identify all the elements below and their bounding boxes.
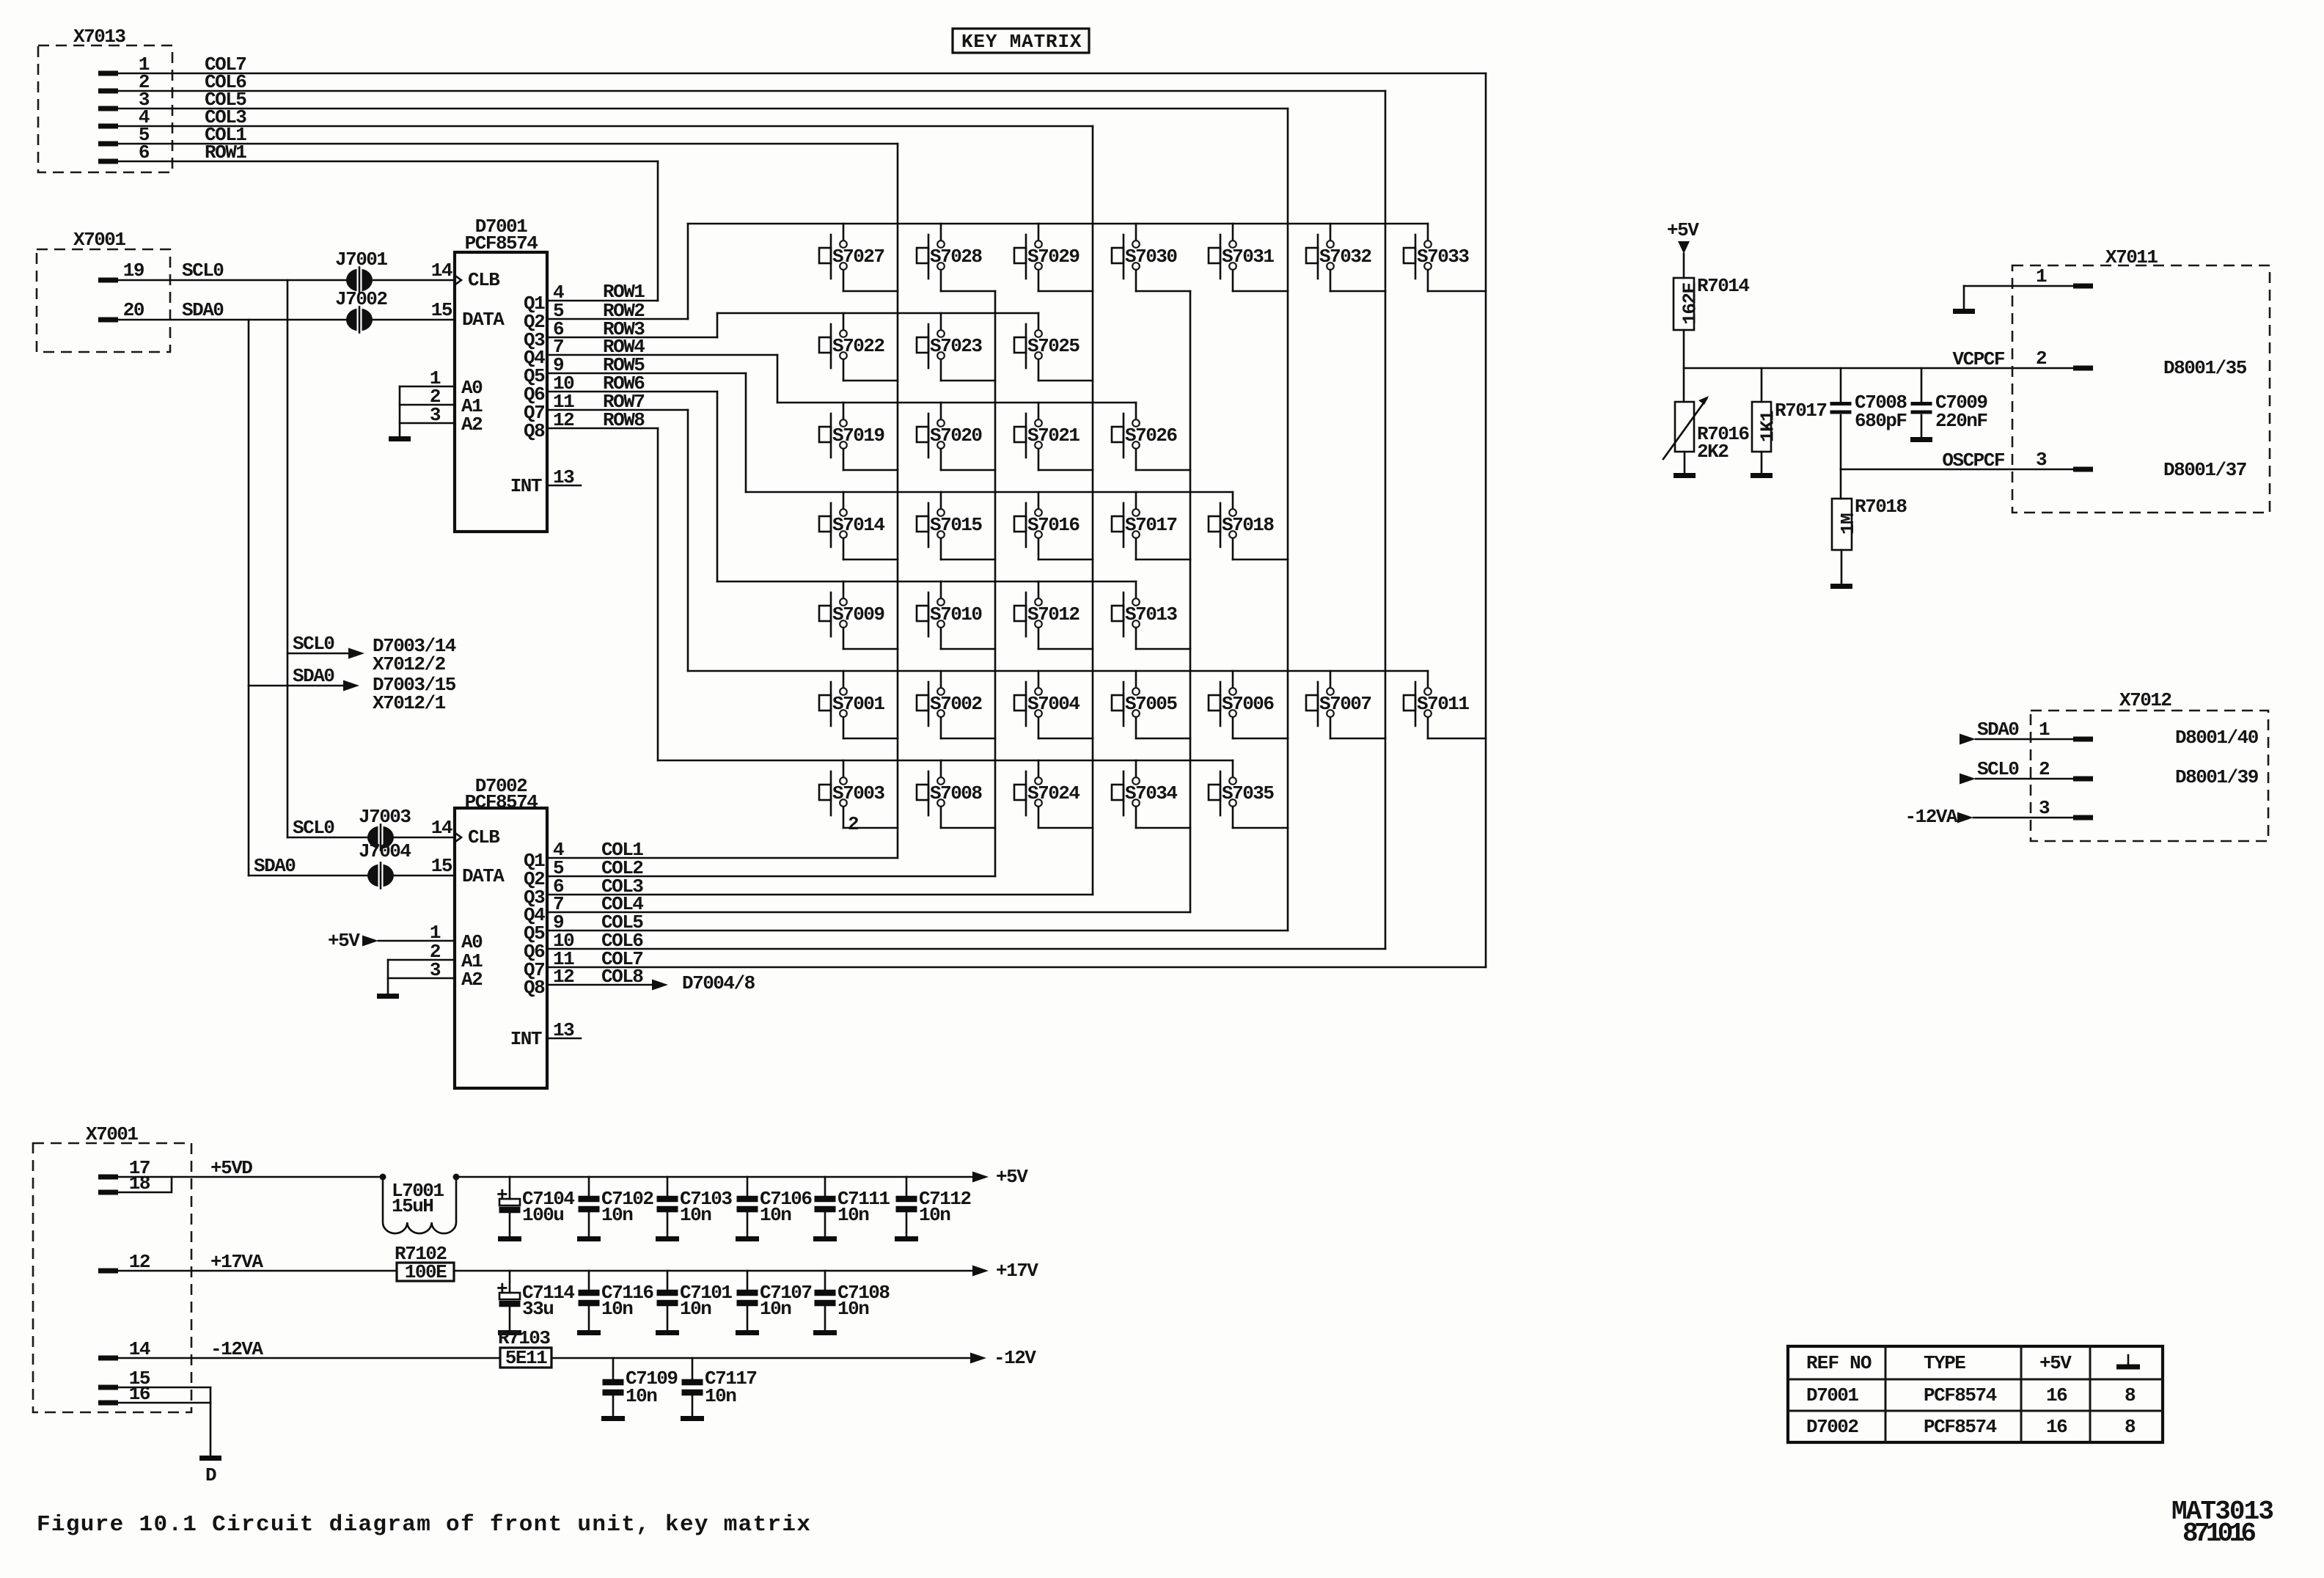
svg-text:S7027: S7027 (832, 246, 884, 268)
wire ROW4 from D7001 Q4 to key row 3 (547, 336, 1136, 403)
svg-text:X7001: X7001 (73, 229, 125, 251)
svg-text:10n: 10n (601, 1298, 633, 1320)
svg-text:680pF: 680pF (1855, 410, 1907, 432)
wire ROW7 from D7001 Q7 to key row 6 (547, 391, 1428, 671)
svg-text:TYPE: TYPE (1924, 1352, 1965, 1374)
svg-text:+5VD: +5VD (210, 1157, 252, 1179)
svg-text:15uH: 15uH (392, 1195, 433, 1217)
switch S7016 (1014, 492, 1093, 559)
connector X7001 (power) (33, 1123, 191, 1412)
wire +5VD rail (118, 1157, 383, 1179)
svg-text:SCL0: SCL0 (182, 260, 224, 282)
node SDA0 to X7012 pin 1 (1960, 719, 2073, 745)
ground R7017 (1751, 473, 1773, 478)
switch S7033 (1404, 224, 1486, 291)
svg-text:D: D (205, 1464, 216, 1486)
svg-text:S7026: S7026 (1125, 425, 1177, 447)
svg-text:10n: 10n (705, 1385, 736, 1407)
capacitor C7114 33u (496, 1271, 574, 1333)
svg-text:8: 8 (2125, 1384, 2136, 1406)
svg-text:PCF8574: PCF8574 (1924, 1416, 1997, 1438)
svg-text:S7014: S7014 (832, 514, 884, 536)
resistor R7017 1K1 (1752, 368, 1827, 473)
svg-text:S7016: S7016 (1027, 514, 1079, 536)
switch S7030 (1112, 224, 1190, 291)
svg-text:X7012/1: X7012/1 (373, 692, 446, 714)
svg-text:S7013: S7013 (1125, 603, 1177, 625)
node SDA0 to D7003/15 X7012/1 (249, 665, 456, 714)
svg-text:SDA0: SDA0 (182, 299, 224, 321)
wire COL2 bus vertical (994, 291, 997, 876)
switch S7027 (819, 224, 898, 291)
wire COL6 bus vertical (1385, 91, 1387, 949)
svg-text:14: 14 (129, 1338, 150, 1360)
svg-text:D7004/8: D7004/8 (682, 972, 755, 994)
svg-text:+: + (496, 1184, 507, 1206)
wire COL5 from X7013 pin 3 (118, 89, 1288, 111)
svg-text:+5V: +5V (1667, 219, 1699, 241)
svg-text:871016: 871016 (2182, 1519, 2257, 1549)
svg-text:S7029: S7029 (1027, 246, 1079, 268)
wire SCL0 to D7002 CLB (287, 817, 455, 839)
switch S7025 (1014, 313, 1093, 381)
wire COL3 bus vertical (1092, 126, 1094, 895)
svg-text:10n: 10n (601, 1204, 633, 1226)
svg-text:S7002: S7002 (930, 693, 982, 715)
connector X7011 (2012, 246, 2270, 513)
svg-text:1: 1 (2036, 265, 2047, 287)
capacitor C7108 10n (813, 1271, 890, 1333)
svg-text:DATA: DATA (462, 865, 505, 887)
switch S7026 (1112, 403, 1190, 470)
svg-text:S7031: S7031 (1222, 246, 1274, 268)
switch S7020 (917, 403, 995, 470)
wire SDA0 from X7001/20 to D7001 DATA (118, 299, 455, 321)
svg-text:S7001: S7001 (832, 693, 884, 715)
svg-text:14: 14 (431, 817, 452, 839)
switch S7019 (819, 403, 898, 470)
switch S7035 (1209, 760, 1288, 828)
svg-text:S7017: S7017 (1125, 514, 1177, 536)
resistor R7018 1M (1832, 496, 1907, 584)
svg-text:-12VA: -12VA (210, 1338, 263, 1360)
resistor R7103 5E11 (498, 1327, 551, 1369)
capacitor C7102 10n (577, 1177, 653, 1239)
svg-text:SCL0: SCL0 (293, 633, 334, 655)
svg-text:R7014: R7014 (1697, 275, 1749, 297)
IC D7001 PCF8574 I/O expander (430, 216, 574, 532)
switch S7028 (917, 224, 995, 291)
svg-text:S7011: S7011 (1417, 693, 1469, 715)
wire +5V rail to arrow (456, 1166, 1028, 1188)
wire +17V rail to arrow (454, 1260, 1038, 1282)
switch S7009 (819, 581, 898, 649)
svg-text:D8001/35: D8001/35 (2163, 357, 2247, 379)
capacitor C7109 10n (601, 1358, 678, 1419)
power +5V supply arrow (1667, 219, 1699, 278)
wire ROW3 from D7001 Q3 to key row 2 (547, 313, 1038, 340)
svg-text:J7003: J7003 (359, 806, 411, 828)
svg-text:S7019: S7019 (832, 425, 884, 447)
svg-text:2K2: 2K2 (1697, 441, 1729, 463)
svg-text:220nF: 220nF (1935, 410, 1987, 432)
wire SDA0 branch vertical (248, 320, 250, 876)
svg-text:D8001/37: D8001/37 (2163, 459, 2246, 481)
svg-text:16: 16 (2046, 1384, 2067, 1406)
svg-text:3: 3 (2036, 449, 2047, 471)
svg-text:-12V: -12V (994, 1347, 1036, 1369)
switch S7012 (1014, 581, 1093, 649)
svg-text:S7015: S7015 (930, 514, 982, 536)
svg-text:D7001: D7001 (1806, 1384, 1858, 1406)
switch S7005 (1112, 671, 1190, 738)
jumper J7001 (335, 249, 387, 293)
svg-text:10n: 10n (837, 1298, 869, 1320)
junction L7001 left (380, 1174, 386, 1181)
svg-text:18: 18 (129, 1173, 150, 1194)
svg-text:S7023: S7023 (930, 335, 982, 357)
ground D7001 address pins (389, 436, 411, 441)
svg-text:SDA0: SDA0 (1977, 719, 2019, 741)
wire COL4 from D7002 Q4 to column bus (547, 893, 1190, 915)
svg-text:S7009: S7009 (832, 603, 884, 625)
switch S7008 (917, 760, 995, 828)
svg-text:X7012: X7012 (2119, 689, 2171, 711)
svg-text:-12VA: -12VA (1905, 806, 1957, 828)
svg-text:10n: 10n (626, 1385, 657, 1407)
switch S7001 (819, 671, 898, 738)
svg-text:X7001: X7001 (86, 1123, 138, 1145)
wire ROW1 from D7001 Q1 to X7013 (547, 161, 658, 303)
inductor L7001 15uH (383, 1177, 456, 1233)
svg-text:R7103: R7103 (498, 1327, 550, 1349)
ground D7002 address pins (377, 994, 399, 999)
capacitor C7008 680pF (1830, 368, 1907, 499)
capacitor C7106 10n (736, 1177, 812, 1239)
svg-text:J7001: J7001 (335, 249, 387, 271)
svg-text:INT: INT (510, 1028, 542, 1050)
svg-text:+5V: +5V (328, 930, 360, 952)
switch S7023 (917, 313, 995, 381)
svg-text:S7018: S7018 (1222, 514, 1274, 536)
svg-text:S7020: S7020 (930, 425, 982, 447)
svg-text:+17VA: +17VA (210, 1251, 263, 1273)
svg-text:+: + (496, 1278, 507, 1300)
svg-text:3: 3 (2039, 797, 2050, 819)
switch S7015 (917, 492, 995, 559)
svg-text:2: 2 (848, 813, 859, 835)
svg-text:6: 6 (139, 142, 150, 164)
wire COL1 from X7013 pin 5 (118, 124, 898, 146)
wire OSCPCF to X7011 pin 3 (1841, 449, 2073, 471)
svg-text:SDA0: SDA0 (293, 665, 334, 687)
svg-text:8: 8 (2125, 1416, 2136, 1438)
svg-text:S7003: S7003 (832, 782, 884, 804)
wire -12VA from X7001 pin 14 (118, 1338, 500, 1360)
switch S7014 (819, 492, 898, 559)
connector X7013 (38, 26, 172, 172)
svg-text:R7018: R7018 (1855, 496, 1907, 518)
wire ROW8 from D7001 Q8 to key row 7 (547, 409, 1233, 760)
wire ROW1 from X7013 pin 6 (118, 142, 658, 164)
svg-text:PCF8574: PCF8574 (1924, 1384, 1997, 1406)
capacitor C7101 10n (656, 1271, 732, 1333)
switch S7006 (1209, 671, 1288, 738)
svg-text:SDA0: SDA0 (254, 855, 296, 877)
wire ROW6 from D7001 Q6 to key row 5 (547, 373, 1136, 581)
svg-text:15: 15 (431, 855, 452, 877)
capacitor C7111 10n (813, 1177, 890, 1239)
wire X7001 pin 18 join (118, 1177, 172, 1192)
wire COL5 from D7002 Q5 to column bus (547, 911, 1288, 933)
jumper J7003 (359, 806, 411, 851)
switch S7010 (917, 581, 995, 649)
svg-text:16: 16 (129, 1383, 150, 1405)
wire ROW2 from D7001 Q2 to key row 1 (547, 224, 1428, 322)
switch S7031 (1209, 224, 1288, 291)
svg-text:S7024: S7024 (1027, 782, 1079, 804)
capacitor C7104 100u (496, 1177, 574, 1239)
capacitor C7009 220nF (1911, 368, 1988, 437)
svg-text:CLB: CLB (468, 826, 500, 848)
wire X7001 pins 15 16 to ground D (118, 1387, 210, 1456)
svg-text:D8001/40: D8001/40 (2175, 727, 2259, 749)
svg-text:S7021: S7021 (1027, 425, 1079, 447)
svg-text:Q8: Q8 (524, 977, 545, 999)
ground C7009 (1910, 437, 1932, 442)
switch S7021 (1014, 403, 1093, 470)
svg-text:19: 19 (123, 260, 144, 282)
resistor R7014 162E (1674, 275, 1749, 330)
svg-text:+5V: +5V (2039, 1352, 2072, 1374)
svg-text:5E11: 5E11 (505, 1347, 547, 1369)
svg-text:10n: 10n (680, 1204, 711, 1226)
wire D7002 A1 A2 to ground (388, 960, 455, 994)
svg-text:SCL0: SCL0 (1977, 758, 2019, 780)
svg-text:X7012/2: X7012/2 (373, 653, 446, 675)
wire COL5 bus vertical (1287, 109, 1289, 931)
resistor R7016 2K2 variable (1663, 396, 1749, 473)
connector X7012 (2031, 689, 2268, 841)
svg-text:10n: 10n (837, 1204, 869, 1226)
svg-text:KEY MATRIX: KEY MATRIX (961, 31, 1082, 53)
svg-text:S7035: S7035 (1222, 782, 1274, 804)
svg-text:1: 1 (2039, 719, 2050, 741)
svg-text:16: 16 (2046, 1416, 2067, 1438)
svg-text:10n: 10n (680, 1298, 711, 1320)
wire COL8 from D7002 Q8 to D7004/8 (547, 966, 755, 994)
svg-text:D8001/39: D8001/39 (2175, 766, 2259, 788)
svg-text:D7002: D7002 (1806, 1416, 1858, 1438)
connector X7001 (I2C) (37, 229, 170, 352)
svg-text:S7033: S7033 (1417, 246, 1469, 268)
svg-text:100u: 100u (522, 1204, 563, 1226)
svg-text:20: 20 (123, 299, 144, 321)
svg-text:S7028: S7028 (930, 246, 982, 268)
svg-text:+5V: +5V (996, 1166, 1028, 1188)
capacitor C7112 10n (895, 1177, 971, 1239)
svg-text:2: 2 (2039, 758, 2050, 780)
ground D (199, 1458, 221, 1487)
svg-text:REF NO: REF NO (1806, 1352, 1872, 1374)
svg-text:10n: 10n (760, 1204, 791, 1226)
svg-text:A2: A2 (461, 414, 483, 436)
capacitor C7117 10n (681, 1358, 757, 1419)
node SCL0 to X7012 pin 2 (1960, 758, 2073, 785)
wire COL3 from D7002 Q3 to column bus (547, 876, 1093, 898)
resistor R7102 100E (395, 1243, 454, 1283)
switch S7013 (1112, 581, 1190, 649)
wire -12V rail to arrow (551, 1347, 1036, 1369)
IC D7002 PCF8574 I/O expander (430, 775, 574, 1088)
capacitor C7107 10n (736, 1271, 812, 1333)
svg-text:S7032: S7032 (1319, 246, 1371, 268)
switch S7017 (1112, 492, 1190, 559)
svg-text:SCL0: SCL0 (293, 817, 334, 839)
ground R7016 (1674, 473, 1696, 478)
switch S7022 (819, 313, 898, 381)
wire SCL0 branch vertical (287, 280, 289, 837)
wire COL7 bus vertical (1485, 73, 1487, 967)
wire ROW5 from D7001 Q5 to key row 4 (547, 354, 1233, 492)
wire COL7 from X7013 pin 1 (118, 54, 1486, 76)
svg-text:J7002: J7002 (335, 288, 387, 310)
wire COL7 from D7002 Q7 to column bus (547, 948, 1486, 970)
switch S7029 (1014, 224, 1093, 291)
capacitor C7103 10n (656, 1177, 732, 1239)
svg-text:S7005: S7005 (1125, 693, 1177, 715)
svg-text:R7017: R7017 (1775, 400, 1827, 422)
svg-text:VCPCF: VCPCF (1952, 348, 2004, 370)
svg-text:S7010: S7010 (930, 603, 982, 625)
svg-text:CLB: CLB (468, 269, 500, 291)
power +5V to D7002 A0 (328, 930, 455, 952)
svg-text:J7004: J7004 (359, 840, 411, 862)
svg-text:COL8: COL8 (601, 966, 643, 988)
wire COL3 from X7013 pin 4 (118, 106, 1093, 128)
svg-text:ROW1: ROW1 (205, 142, 246, 164)
wire +17VA from X7001 pin 12 (118, 1251, 397, 1273)
svg-text:S7022: S7022 (832, 335, 884, 357)
svg-text:15: 15 (431, 299, 452, 321)
ground X7011 pin 1 (1953, 309, 1975, 314)
svg-text:S7025: S7025 (1027, 335, 1079, 357)
wire X7011 pin 1 to ground (1964, 286, 2073, 309)
svg-text:PCF8574: PCF8574 (465, 791, 538, 813)
svg-text:12: 12 (129, 1251, 150, 1273)
wire D7001 INT pin 13 (547, 485, 581, 487)
wire COL2 from D7002 Q2 to column bus (547, 857, 995, 879)
wire D7001 A0 A1 A2 to ground (400, 386, 455, 436)
svg-text:X7013: X7013 (73, 26, 125, 48)
svg-text:33u: 33u (522, 1298, 553, 1320)
jumper J7004 (359, 840, 411, 889)
title box KEY MATRIX (953, 29, 1089, 53)
node SCL0 to D7003/14 X7012/2 (287, 633, 456, 675)
ground R7018 (1830, 584, 1852, 589)
svg-text:10n: 10n (760, 1298, 791, 1320)
svg-text:+17V: +17V (996, 1260, 1038, 1282)
wire R7014 to VCPCF node (1683, 330, 1685, 402)
switch S7024 (1014, 760, 1093, 828)
wire D7002 INT pin 13 (547, 1038, 581, 1040)
node -12VA to X7012 pin 3 (1905, 806, 2073, 828)
switch S7011 (1404, 671, 1486, 738)
wire SCL0 from X7001/19 to D7001 CLB (118, 260, 455, 282)
wire COL1 from D7002 Q1 to column bus (547, 839, 898, 861)
wire SDA0 to D7002 DATA (249, 855, 455, 877)
svg-text:X7011: X7011 (2105, 246, 2158, 268)
junction L7001 right (453, 1174, 460, 1181)
table of IC power pins (1788, 1346, 2163, 1442)
switch S7003 (819, 760, 898, 835)
switch S7002 (917, 671, 995, 738)
svg-text:S7008: S7008 (930, 782, 982, 804)
svg-text:2: 2 (2036, 348, 2047, 370)
switch S7032 (1306, 224, 1385, 291)
svg-text:ROW8: ROW8 (603, 409, 645, 431)
switch S7018 (1209, 492, 1288, 559)
wire COL1 bus vertical (897, 144, 899, 858)
jumper J7002 (335, 288, 387, 333)
switch S7007 (1306, 671, 1385, 738)
svg-text:INT: INT (510, 475, 542, 497)
wire VCPCF to X7011 pin 2 (1684, 348, 2073, 370)
wire COL6 from D7002 Q6 to column bus (547, 930, 1385, 952)
svg-text:100E: 100E (405, 1261, 447, 1283)
svg-text:14: 14 (431, 260, 452, 282)
svg-text:A2: A2 (461, 969, 483, 991)
svg-text:S7006: S7006 (1222, 693, 1274, 715)
svg-text:DATA: DATA (462, 309, 505, 331)
switch S7034 (1112, 760, 1190, 828)
svg-text:S7030: S7030 (1125, 246, 1177, 268)
capacitor C7116 10n (577, 1271, 653, 1333)
svg-text:OSCPCF: OSCPCF (1942, 449, 2005, 471)
svg-text:S7034: S7034 (1125, 782, 1177, 804)
svg-text:10n: 10n (919, 1204, 950, 1226)
switch S7004 (1014, 671, 1093, 738)
wire COL6 from X7013 pin 2 (118, 71, 1385, 93)
svg-text:Q8: Q8 (524, 420, 545, 442)
svg-text:S7007: S7007 (1319, 693, 1371, 715)
wire COL4 bus vertical (1190, 291, 1192, 912)
svg-text:S7012: S7012 (1027, 603, 1079, 625)
svg-text:S7004: S7004 (1027, 693, 1079, 715)
